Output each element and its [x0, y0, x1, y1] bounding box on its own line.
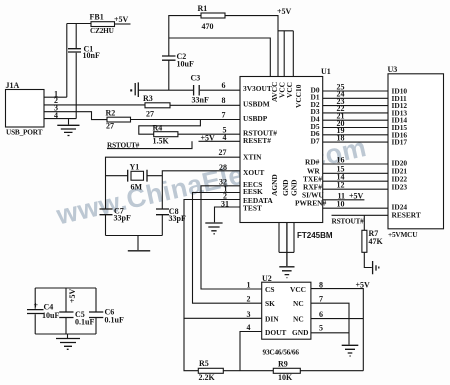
svg-text:3: 3 [247, 310, 251, 319]
svg-text:USB_PORT: USB_PORT [6, 127, 43, 136]
svg-text:2: 2 [247, 295, 251, 304]
svg-text:470: 470 [202, 22, 214, 31]
pin 4 [44, 111, 76, 120]
svg-text:Y1: Y1 [130, 163, 140, 172]
wire NC pin6 [311, 318, 363, 320]
svg-text:R9: R9 [278, 360, 288, 369]
svg-text:31: 31 [221, 199, 229, 208]
svg-text:VCC: VCC [285, 82, 294, 98]
wire EEDATA pin2 [184, 200, 262, 319]
wire D5 [323, 127, 388, 129]
U1 top power pin names (vertical) [270, 82, 303, 108]
svg-text:U1: U1 [321, 67, 331, 76]
wire D0 [323, 90, 388, 92]
resistor R1 470 [198, 4, 226, 31]
svg-text:10: 10 [337, 200, 345, 209]
capacitor C7 33pF [100, 207, 131, 223]
U1 left pin names [243, 84, 277, 212]
node VCC bar [278, 31, 293, 77]
svg-text:16: 16 [337, 155, 345, 164]
svg-text:93C46/56/66: 93C46/56/66 [263, 348, 300, 357]
wire USBDP [131, 119, 241, 121]
ground (xtal) [128, 236, 150, 251]
svg-text:VCC10: VCC10 [294, 84, 303, 108]
pin 2 [44, 96, 145, 105]
crystal Y1 6M [106, 163, 163, 192]
svg-text:D7: D7 [311, 136, 320, 145]
node RSTOUT# to RESERT [332, 215, 389, 225]
wire VBUS up [66, 24, 68, 98]
svg-text:2.2K: 2.2K [199, 373, 216, 382]
svg-text:10uF: 10uF [42, 311, 59, 320]
op-amp U1 FT245BM body [240, 67, 333, 240]
ferrite bead FB1 (CZ2HU) [90, 13, 115, 36]
svg-text:SK: SK [265, 299, 275, 308]
pin 1 [44, 89, 67, 98]
svg-text:USBDP: USBDP [243, 114, 268, 123]
wire NC pin7 [311, 303, 349, 344]
svg-text:U3: U3 [388, 65, 398, 74]
svg-text:+5V: +5V [349, 192, 364, 201]
svg-text:6: 6 [319, 310, 323, 319]
wire C1 drop [75, 24, 77, 119]
wire GND pin5 [311, 332, 349, 334]
svg-text:0.1uF: 0.1uF [75, 318, 94, 327]
svg-text:27: 27 [106, 122, 114, 131]
svg-text:NC: NC [293, 299, 304, 308]
svg-text:+5VMCU: +5VMCU [388, 230, 418, 239]
svg-text:10uF: 10uF [177, 60, 194, 69]
svg-text:VCC: VCC [290, 285, 306, 294]
wire D3 [323, 112, 388, 114]
svg-text:FB1: FB1 [90, 13, 104, 22]
wire WR [323, 172, 388, 174]
wire XOUT pin28 [162, 171, 240, 236]
wire +5V cap rail [35, 288, 96, 334]
svg-text:1: 1 [247, 281, 251, 290]
wire USBDM [170, 104, 240, 106]
svg-text:GND: GND [290, 180, 299, 196]
wire AVCC [169, 38, 270, 77]
capacitor C2 10uF [162, 52, 194, 69]
ground (USB) [57, 119, 79, 136]
svg-text:4: 4 [223, 133, 227, 142]
svg-text:RSTOUT#: RSTOUT# [107, 140, 140, 149]
wire VCC pin8 to +5V [311, 281, 370, 371]
svg-text:27: 27 [146, 110, 154, 119]
svg-text:5: 5 [319, 324, 323, 333]
svg-text:DIN: DIN [265, 315, 279, 324]
+5V (FB1 out) [114, 15, 131, 24]
capacitor C3 33nF [191, 74, 209, 105]
svg-text:ID23: ID23 [392, 183, 408, 192]
wire D1 [323, 97, 388, 99]
wire C2 bottom to 3V3OUT net [168, 60, 170, 90]
svg-text:R4: R4 [153, 124, 163, 133]
pin 3 [44, 104, 107, 120]
svg-text:GND: GND [292, 328, 308, 337]
ground (rail) [56, 334, 80, 349]
capacitor (3V3OUT bypass glyph) [130, 82, 138, 97]
svg-text:18: 18 [337, 133, 345, 142]
svg-text:+5V: +5V [356, 281, 371, 290]
svg-text:7: 7 [222, 111, 226, 120]
svg-text:+5V: +5V [277, 7, 292, 16]
svg-text:6M: 6M [131, 183, 143, 192]
wire D2 [323, 105, 388, 107]
capacitor C5 0.1uF [59, 310, 94, 327]
svg-text:27: 27 [219, 148, 227, 157]
connector U3 body [388, 65, 444, 229]
svg-text:7: 7 [319, 295, 323, 304]
svg-text:R1: R1 [198, 4, 208, 13]
svg-text:EESK: EESK [243, 187, 263, 196]
svg-text:RESERT: RESERT [392, 210, 421, 219]
wire PWREN# to ID24 [323, 207, 388, 209]
wire TEST pin31 [215, 207, 241, 222]
wire R1 left to C2 column [169, 16, 201, 56]
svg-text:+5V: +5V [114, 15, 129, 24]
connector J1A (USB_PORT) [6, 81, 45, 136]
svg-text:12: 12 [337, 181, 345, 190]
svg-text:PWREN#: PWREN# [295, 199, 327, 208]
resistor R2 27 [106, 109, 131, 131]
wire R1 right to +5V corner, down to VCC [225, 16, 278, 77]
capacitor C6 0.1uF [89, 308, 124, 325]
ground (TEST) [205, 223, 222, 234]
resistor R4 1.5K [153, 124, 178, 146]
svg-text:1.5K: 1.5K [153, 137, 170, 146]
wire D7 [323, 141, 388, 143]
svg-text:R3: R3 [143, 94, 153, 103]
svg-text:33pF: 33pF [169, 214, 186, 223]
svg-text:R2: R2 [106, 109, 116, 118]
svg-text:33pF: 33pF [114, 214, 131, 223]
capacitor C4 10uF (electrolytic) [27, 301, 59, 320]
svg-text:NC: NC [293, 315, 304, 324]
svg-text:XOUT: XOUT [243, 168, 264, 177]
wire SI/WU to +5V [323, 199, 365, 201]
svg-text:28: 28 [219, 163, 227, 172]
U1 gnd trident [279, 223, 294, 267]
svg-text:+5V: +5V [68, 288, 77, 303]
wire RD# [323, 163, 388, 165]
capacitor C8 33pF [156, 207, 186, 223]
svg-text:FT245BM: FT245BM [297, 231, 333, 240]
resistor R9 10K [240, 360, 363, 383]
svg-text:10K: 10K [278, 373, 293, 382]
svg-text:8: 8 [319, 281, 323, 290]
svg-text:33nF: 33nF [192, 96, 209, 105]
svg-text:RSTOUT#: RSTOUT# [332, 217, 365, 226]
wire EESK pin1 [193, 193, 262, 304]
wire RSTOUT# pin5 [178, 133, 240, 135]
svg-text:J1A: J1A [6, 81, 20, 90]
wire TXE# [323, 180, 388, 182]
ground (U2) [342, 345, 359, 356]
svg-text:8: 8 [222, 96, 226, 105]
resistor R3 27 [143, 94, 170, 119]
wire VBUS to FB1 [67, 23, 91, 25]
wire DOUT pin4 [240, 332, 262, 371]
capacitor C1 [68, 45, 100, 61]
svg-text:XTIN: XTIN [243, 153, 262, 162]
svg-text:C3: C3 [191, 74, 201, 83]
svg-text:AGND: AGND [270, 174, 279, 196]
svg-text:3V3OUT: 3V3OUT [243, 84, 272, 93]
watermark [53, 132, 369, 231]
U1 right pin names bus ctl [295, 157, 327, 207]
wire RXF# [323, 188, 388, 190]
svg-text:CS: CS [265, 285, 274, 294]
svg-text:47K: 47K [369, 237, 384, 246]
wire 3V3OUT net [138, 89, 240, 91]
svg-text:ID17: ID17 [392, 138, 408, 147]
wire D6 [323, 134, 388, 136]
svg-text:USBDM: USBDM [243, 99, 270, 108]
capacitor (reset glyph) [373, 261, 379, 274]
wire RESET# pin4 [199, 140, 241, 142]
svg-text:CZ2HU: CZ2HU [90, 26, 115, 35]
svg-text:TEST: TEST [243, 204, 262, 213]
svg-text:4: 4 [247, 323, 251, 332]
eeprom U2 93C46/56/66 body [262, 274, 311, 357]
svg-text:0.1uF: 0.1uF [105, 316, 124, 325]
svg-text:6: 6 [222, 81, 226, 90]
wire R4 bracket to USBDP [139, 120, 201, 135]
svg-text:RD#: RD# [305, 157, 320, 166]
wire EECS pin32 [201, 186, 262, 289]
U2 pin names [265, 285, 308, 337]
svg-text:U2: U2 [262, 274, 272, 283]
U3 pin names [392, 87, 421, 220]
U1 bottom gnd pin names (vertical) [270, 174, 299, 196]
svg-text:DOUT: DOUT [265, 328, 286, 337]
wire D4 [323, 119, 388, 121]
wire XTIN pin27 [106, 157, 241, 235]
resistor R5 2.2K [184, 318, 240, 382]
svg-text:RESET#: RESET# [243, 136, 271, 145]
svg-text:R5: R5 [199, 359, 209, 368]
svg-text:+: + [34, 301, 39, 310]
ground (U1) [279, 267, 294, 278]
node RSTOUT# label [107, 140, 192, 149]
wire xtal bottom [106, 235, 163, 237]
resistor R7 47K [362, 215, 384, 267]
svg-text:10nF: 10nF [83, 51, 100, 60]
U1 right pin names D0-D7 [311, 85, 320, 145]
